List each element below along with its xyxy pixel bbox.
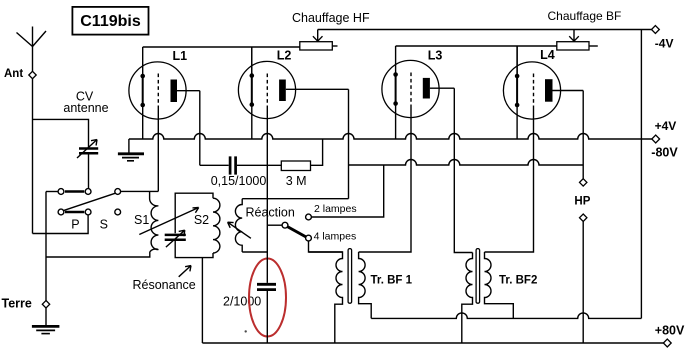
wire L1 grid down <box>157 108 159 191</box>
primary winding BF1 <box>309 252 343 343</box>
wire L2 filament bottom to bus <box>251 105 253 139</box>
primary winding BF2 <box>462 253 473 344</box>
wire 2 lampes to bus2 <box>311 165 383 217</box>
Ant terminal diamond <box>29 71 36 78</box>
S2 box <box>175 193 213 257</box>
transformer Tr BF2 <box>462 249 538 343</box>
wire row1 left to Terre line <box>46 191 58 193</box>
svg-text:Réaction: Réaction <box>246 206 295 220</box>
ground (Terre) <box>32 308 60 334</box>
wire S2 bottom down <box>201 258 203 343</box>
svg-text:C119bis: C119bis <box>80 13 141 30</box>
ground (bus1) <box>118 139 144 161</box>
contact 2 lampes <box>306 214 312 220</box>
svg-text:2 lampes: 2 lampes <box>314 203 357 215</box>
svg-text:L4: L4 <box>540 48 555 62</box>
wire L3 filament bottom to bus <box>395 104 397 140</box>
Resonance arrow <box>179 266 191 277</box>
transformer Tr BF 1 <box>309 249 413 343</box>
svg-text:-4V: -4V <box>655 37 674 51</box>
filament L1 <box>142 76 144 105</box>
wire L2 grid below cap to +80V rail <box>266 291 268 343</box>
+80V rail <box>202 342 663 344</box>
wire right edge <box>640 30 642 319</box>
wire L2 heater drop <box>251 47 253 76</box>
highlight ellipse <box>249 259 286 337</box>
wire L3 anode down to Tr BF2 <box>454 88 472 252</box>
bus2 HP line <box>349 160 584 166</box>
svg-text:Résonance: Résonance <box>133 278 196 292</box>
wire L2 filament top <box>251 47 253 76</box>
tube L2 <box>238 49 348 119</box>
svg-text:-80V: -80V <box>651 145 678 159</box>
wire Terre down <box>45 192 47 301</box>
svg-text:antenne: antenne <box>63 101 108 115</box>
grid L3 <box>410 73 412 108</box>
wire L1 filament bottom to bus <box>142 105 144 139</box>
top rail -4V <box>318 29 652 31</box>
svg-text:Terre: Terre <box>2 297 32 311</box>
filament L4 <box>516 76 518 105</box>
coil Reaction <box>235 199 242 252</box>
svg-text:Chauffage BF: Chauffage BF <box>548 9 622 23</box>
wire L4 grid down to Tr BF2 <box>485 108 534 252</box>
grid L4 <box>533 74 535 109</box>
grid L2 <box>266 74 268 109</box>
rheostat Chauffage HF <box>300 30 338 51</box>
capacitor S2 tuning <box>165 230 186 247</box>
tube L1 <box>129 49 200 119</box>
svg-text:L1: L1 <box>173 49 188 63</box>
svg-text:S1: S1 <box>134 213 149 227</box>
terminal HP top <box>580 179 587 186</box>
svg-text:4 lampes: 4 lampes <box>314 231 357 243</box>
wire pivot to grid line <box>267 224 282 226</box>
rheostat Chauffage BF <box>557 30 598 51</box>
svg-text:2/1000: 2/1000 <box>223 295 261 309</box>
terminal HP bottom <box>580 214 587 221</box>
svg-text:0,15/1000: 0,15/1000 <box>211 174 267 188</box>
wire L4 filament bottom to bus <box>516 105 518 139</box>
switch P/S contacts row 2 <box>58 209 121 215</box>
wire 4 lampes down <box>309 241 343 252</box>
stray mark <box>245 330 247 332</box>
tube L4 <box>503 48 583 119</box>
tube L3 <box>382 49 454 118</box>
filament L3 <box>395 75 397 104</box>
filament L2 <box>251 76 253 105</box>
wire S1 bottom line <box>46 252 150 257</box>
svg-text:L2: L2 <box>277 49 292 63</box>
grid L1 <box>157 74 159 109</box>
svg-text:HP: HP <box>574 195 590 207</box>
coupling capacitor 0,15/1000 <box>200 156 281 174</box>
secondary winding BF1 <box>359 252 372 318</box>
svg-text:Tr. BF2: Tr. BF2 <box>499 275 537 287</box>
wire L2 grid down <box>266 108 268 283</box>
wire L4 anode down to HP <box>582 91 584 179</box>
coil S1 <box>150 191 159 251</box>
wire L1 anode down <box>199 91 201 166</box>
heater line BF <box>396 45 557 47</box>
svg-text:P: P <box>71 218 79 232</box>
wire reaction top <box>242 198 348 200</box>
wire L3 filament top <box>395 46 397 75</box>
terminal +4V/-80V <box>652 135 660 143</box>
wire reaction bottom <box>242 251 267 253</box>
switch P/S contacts row 1 <box>58 189 121 195</box>
wire CV branch <box>33 119 89 147</box>
coupling arrow S1 to S2 <box>139 208 198 235</box>
wire L4 filament top <box>516 46 518 76</box>
wire L2 anode down <box>348 89 350 198</box>
switch 2/4 lampes pivot <box>282 222 288 228</box>
wire row1 right to S1 <box>120 190 158 192</box>
anode L1 <box>171 80 178 103</box>
anode L4 <box>545 79 553 102</box>
bus3 output line <box>371 313 641 318</box>
heater line HF <box>143 46 300 48</box>
svg-text:Chauffage HF: Chauffage HF <box>292 11 370 25</box>
terminal +80V <box>663 339 671 347</box>
Terre terminal diamond <box>42 301 49 308</box>
svg-text:S: S <box>100 217 108 231</box>
coil S2 <box>213 198 220 253</box>
wire L1 filament top <box>142 47 144 76</box>
capacitor 2/1000 <box>257 284 276 289</box>
anode L2 <box>279 80 286 102</box>
antenna <box>17 27 47 72</box>
title box C119bis <box>72 7 148 35</box>
Reaction arrow <box>228 222 251 238</box>
wire L4 heater drop <box>516 46 518 76</box>
switch arm P/S <box>64 193 116 210</box>
svg-text:Ant: Ant <box>4 68 23 80</box>
svg-text:+4V: +4V <box>655 119 677 133</box>
anode L3 <box>423 78 430 99</box>
capacitor CV antenne <box>77 140 98 189</box>
wire L3 grid down to Tr BF1 <box>359 107 411 252</box>
terminal -4V <box>652 26 660 34</box>
svg-text:+80V: +80V <box>655 323 685 337</box>
core BF1 <box>348 249 352 304</box>
resistor 3M <box>281 139 322 171</box>
svg-text:3 M: 3 M <box>286 174 307 188</box>
svg-text:L3: L3 <box>428 49 443 63</box>
contact 4 lampes <box>306 235 312 241</box>
wire antenna down <box>32 79 34 234</box>
wire HP down to +80V rail <box>582 221 584 343</box>
bus1 filament/ground rail <box>129 134 652 140</box>
svg-text:Tr. BF 1: Tr. BF 1 <box>371 275 413 287</box>
wire antenna bottom to P riser <box>33 215 89 234</box>
svg-text:S2: S2 <box>194 213 209 227</box>
secondary winding BF2 <box>485 252 514 318</box>
core BF2 <box>476 249 480 304</box>
switch arm 2/4 lampes <box>287 227 306 238</box>
